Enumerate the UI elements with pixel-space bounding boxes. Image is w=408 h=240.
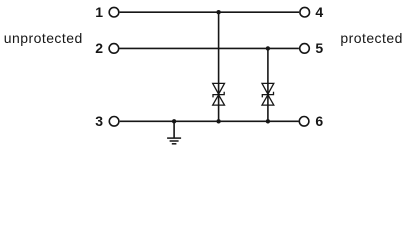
terminal circle 5 [300, 44, 310, 54]
wire row 2 (terminal 2 to terminal 5) [120, 47, 299, 49]
suppressor diode D1 (bidirectional, on branch 1) [213, 83, 225, 105]
svg-text:4: 4 [315, 4, 323, 20]
svg-text:protected: protected [340, 30, 402, 46]
terminal circle 4 [300, 7, 310, 17]
terminal circle 1 [109, 7, 119, 17]
wire vertical branch 1 (row 1 down to row 3) [218, 12, 220, 121]
node junction branch 2 / row 2 [266, 46, 270, 50]
wire vertical branch 2 (row 2 down to row 3) [267, 48, 269, 121]
svg-text:3: 3 [95, 113, 103, 129]
node junction branch 1 / row 3 [216, 119, 220, 123]
wire row 1 (terminal 1 to terminal 4) [120, 11, 300, 13]
wire row 3 (terminal 3 to terminal 6) [120, 120, 299, 122]
terminal circle 6 [299, 117, 309, 127]
svg-text:2: 2 [95, 40, 103, 56]
suppressor diode D2 (bidirectional, on branch 2) [262, 83, 274, 105]
terminal circle 2 [109, 44, 119, 54]
svg-text:5: 5 [315, 40, 323, 56]
ground (earth symbol) [167, 138, 181, 144]
node junction branch 2 / row 3 [266, 119, 270, 123]
node junction branch 1 / row 1 [216, 10, 220, 14]
svg-text:6: 6 [315, 113, 323, 129]
node junction ground / row 3 [172, 119, 176, 123]
wire ground drop [173, 121, 175, 138]
terminal circle 3 [109, 117, 119, 127]
svg-text:1: 1 [95, 4, 103, 20]
svg-text:unprotected: unprotected [4, 30, 83, 46]
